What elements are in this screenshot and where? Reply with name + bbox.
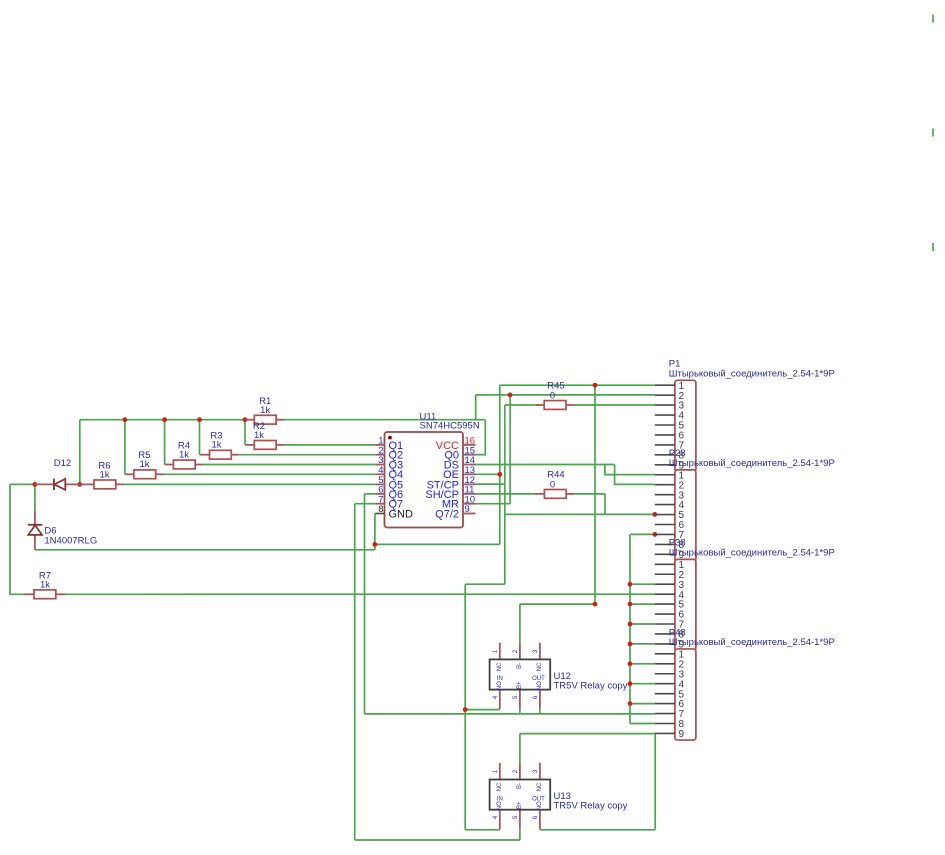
svg-text:D12: D12 (54, 458, 71, 469)
wire riser P1.1 to P38.5 (594, 385, 596, 604)
svg-text:NO: NO (537, 681, 543, 690)
wire U13 pin 5 row (355, 839, 520, 841)
wire to P48 pin 8 (630, 723, 655, 725)
wire to P38 pin 9 (630, 643, 655, 645)
wire P28 pin 5 row (505, 513, 655, 515)
svg-text:3: 3 (533, 769, 539, 773)
wire P1 pin 1 row (500, 384, 655, 386)
svg-text:4: 4 (493, 695, 499, 699)
wire U11 pin 6 Q6 (365, 493, 376, 495)
svg-text:6: 6 (533, 695, 539, 699)
wire ground riser (P1.1/OE/GND) (499, 385, 501, 544)
wire U13 pin 6 row (540, 829, 655, 831)
wire DS jog to P28 pin 2 (615, 465, 655, 485)
wire to U12 pin 4 (465, 709, 500, 711)
junction P28 pin 5 (652, 512, 657, 517)
svg-text:NC: NC (497, 782, 503, 791)
junction R1 row / R3 (197, 417, 202, 422)
svg-text:5: 5 (513, 815, 519, 819)
svg-text:3: 3 (533, 649, 539, 653)
svg-text:4: 4 (493, 815, 499, 819)
svg-text:5: 5 (513, 695, 519, 699)
wire vertical from R1 row to D12 junction (79, 420, 81, 485)
junction R1 row / R2 (243, 417, 248, 422)
wire P48 pin 9 row (520, 733, 655, 735)
svg-text:NO: NO (497, 681, 503, 690)
wire D6 cathode row to GND column (35, 549, 375, 551)
wire Q6 riser (364, 494, 366, 714)
wire drop to U11 pin 15 Q0 (476, 420, 486, 455)
svg-text:9: 9 (679, 729, 685, 740)
junction bus / P48.2 (628, 661, 633, 666)
op-amp U11 SN74HC595N shift register (375, 432, 475, 528)
connector pin header P48 (655, 649, 696, 740)
wire R2 to U11 pin 1 (285, 444, 376, 446)
svg-text:1k: 1k (254, 430, 264, 441)
wire P48.9 riser down (654, 734, 656, 830)
junction bus / P38.3 (628, 582, 633, 587)
wire left rail to D12 anode junction (10, 483, 35, 485)
wire left rail down to R7 (10, 484, 24, 594)
wire riser P1.2 to MR (509, 395, 511, 504)
wire D12 junction down to D6 (34, 484, 36, 510)
junction riser / U12 pin 4 (463, 707, 468, 712)
relay relay U13 TR5V Relay copy (490, 763, 551, 830)
wire to P38 pin 3 (630, 583, 655, 585)
wire U11 pin 13 OE to riser (476, 473, 500, 475)
wire P38.5 row left segment (520, 603, 595, 605)
wire Q7 riser (354, 504, 356, 840)
junction R1 row / R5 (123, 417, 128, 422)
svg-text:B+: B+ (517, 801, 523, 809)
svg-text:B-: B- (517, 663, 523, 669)
junction P1.2 row / MR riser (508, 393, 513, 398)
wire U11 pin 14 DS row (476, 464, 615, 466)
svg-text:Штырьковый_соединитель_2.54-1*: Штырьковый_соединитель_2.54-1*9P (669, 458, 835, 469)
svg-text:SN74HC595N: SN74HC595N (420, 421, 480, 432)
wire R5 to U11 pin 4 (164, 473, 375, 475)
wire P28 pin 7 branch (630, 533, 655, 535)
junction P1.1 row / riser (593, 383, 598, 388)
svg-text:1k: 1k (179, 449, 189, 460)
resistor R44 0 (535, 490, 575, 499)
wire P1 pin 2 row (476, 394, 655, 396)
wire P1 pin2 row drop to R1 row (475, 395, 477, 420)
wire U11 pin 10 MR (476, 503, 511, 505)
junction D12 cathode / R1 rail (77, 482, 82, 487)
wire long riser to relay pins 4 (464, 584, 466, 830)
junction bus / P48.4 (628, 681, 633, 686)
svg-text:1k: 1k (260, 405, 270, 416)
resistor R1 1k (245, 415, 285, 424)
svg-text:Штырьковый_соединитель_2.54-1*: Штырьковый_соединитель_2.54-1*9P (669, 368, 835, 379)
wire to P48 pin 2 (630, 663, 655, 665)
resistor R3 1k (200, 450, 240, 459)
svg-text:9: 9 (465, 504, 470, 515)
wire to P48 pin 6 (630, 703, 655, 705)
svg-text:0: 0 (550, 479, 555, 490)
wire U13 pin 5 link (519, 830, 521, 840)
wire riser R45/STCP/P28.5 (504, 405, 506, 584)
wire U11 pin 11 SH/CP to R44 (476, 493, 535, 495)
wire R4 to U11 pin 3 (204, 464, 375, 466)
resistor R4 1k (165, 460, 204, 469)
wire vertical to R2 (244, 420, 246, 445)
resistor R45 0 (535, 401, 574, 410)
connector pin header P38 (655, 559, 696, 650)
junction bus / P38.7 (628, 622, 633, 627)
svg-text:B-: B- (517, 783, 523, 789)
wire R44 right (575, 493, 605, 495)
wire to P48 pin 4 (630, 683, 655, 685)
svg-text:TR5V Relay copy: TR5V Relay copy (554, 680, 628, 691)
wire drop to U12 pin 2 (519, 604, 521, 643)
wire R45 left (505, 404, 536, 406)
svg-text:1N4007RLG: 1N4007RLG (44, 535, 97, 546)
svg-text:Q7/2: Q7/2 (435, 508, 459, 520)
junction P38.5 row left (593, 602, 598, 607)
wire stub off-canvas tick 2 (932, 129, 934, 137)
svg-text:TR5V Relay copy: TR5V Relay copy (554, 801, 628, 812)
wire vertical to R5 (124, 420, 126, 475)
resistor R7 1k (24, 590, 66, 599)
wire riser link row (465, 583, 505, 585)
svg-text:1k: 1k (40, 580, 50, 591)
junction P38.5 row right (628, 602, 633, 607)
wire R3 to U11 pin 2 (239, 454, 375, 456)
wire to P38 pin 5 (630, 603, 655, 605)
junction bus / P38.9 (628, 642, 633, 647)
wire to U13 pin 4 (465, 829, 500, 831)
resistor R6 1k (80, 480, 125, 489)
junction OE / ground riser (497, 472, 502, 477)
svg-text:NC: NC (537, 782, 543, 791)
wire stub off-canvas tick 1 (932, 15, 934, 23)
wire U11 pin 12 ST/CP (476, 483, 505, 485)
svg-text:NC: NC (497, 662, 503, 671)
svg-text:1k: 1k (99, 470, 109, 481)
svg-text:GND: GND (389, 508, 414, 520)
junction D12 anode / D6 (33, 482, 38, 487)
junction R1 row / R4 (162, 417, 167, 422)
connector pin header P28 (655, 470, 696, 561)
svg-text:NO: NO (537, 801, 543, 810)
wire R7 row to P38 pin 4 (66, 593, 655, 595)
junction P28 pin 7 (652, 532, 657, 537)
relay relay U12 TR5V Relay copy (490, 643, 551, 710)
svg-text:NO: NO (497, 801, 503, 810)
wire vertical to R4 (164, 420, 166, 465)
svg-text:6: 6 (533, 815, 539, 819)
wire vertical to R3 (199, 420, 201, 455)
wire U11 pin 8 GND down (374, 514, 376, 550)
svg-text:1k: 1k (139, 459, 149, 470)
junction bus / P48.6 (628, 701, 633, 706)
resistor R5 1k (125, 470, 164, 479)
svg-text:2: 2 (513, 769, 519, 773)
wire GND row to ground riser (375, 543, 500, 545)
wire R6 to U11 pin 5 (124, 483, 375, 485)
wire to P38 pin 7 (630, 623, 655, 625)
diode D6 1N4007RLG (28, 510, 42, 550)
wire R45 right to P1 pin 3 (575, 404, 655, 406)
wire R44 drop to P28.5 row (604, 494, 606, 515)
wire R1 row left segment (80, 419, 245, 421)
wire R1 row right segment to Q0 drop (285, 419, 486, 421)
svg-text:8: 8 (378, 504, 383, 515)
resistor R2 1k (245, 441, 285, 450)
svg-text:B+: B+ (517, 681, 523, 689)
diode D12 (35, 479, 80, 490)
wire U12 pins 5/6 row to P48 pin 7 (365, 713, 655, 715)
wire drop to U13 pin 2 (519, 734, 521, 763)
svg-text:1: 1 (493, 649, 499, 653)
wire U12 pin 5 link (519, 709, 521, 714)
junction GND column (373, 542, 378, 547)
svg-text:2: 2 (513, 649, 519, 653)
svg-text:Штырьковый_соединитель_2.54-1*: Штырьковый_соединитель_2.54-1*9P (669, 637, 835, 648)
connector pin header P1 (655, 380, 696, 471)
wire DS branch to P28 pin 1 (605, 465, 655, 475)
wire bus riser P28.7 to P48.8 (629, 534, 631, 723)
svg-text:Штырьковый_соединитель_2.54-1*: Штырьковый_соединитель_2.54-1*9P (669, 547, 835, 558)
wire stub off-canvas tick 3 (932, 243, 934, 251)
svg-text:NC: NC (537, 662, 543, 671)
svg-text:0: 0 (550, 390, 555, 401)
svg-text:1: 1 (493, 769, 499, 773)
svg-text:1k: 1k (211, 440, 221, 451)
wire U12 pin 6 link (539, 709, 541, 714)
wire U11 pin 7 Q7 (355, 503, 376, 505)
